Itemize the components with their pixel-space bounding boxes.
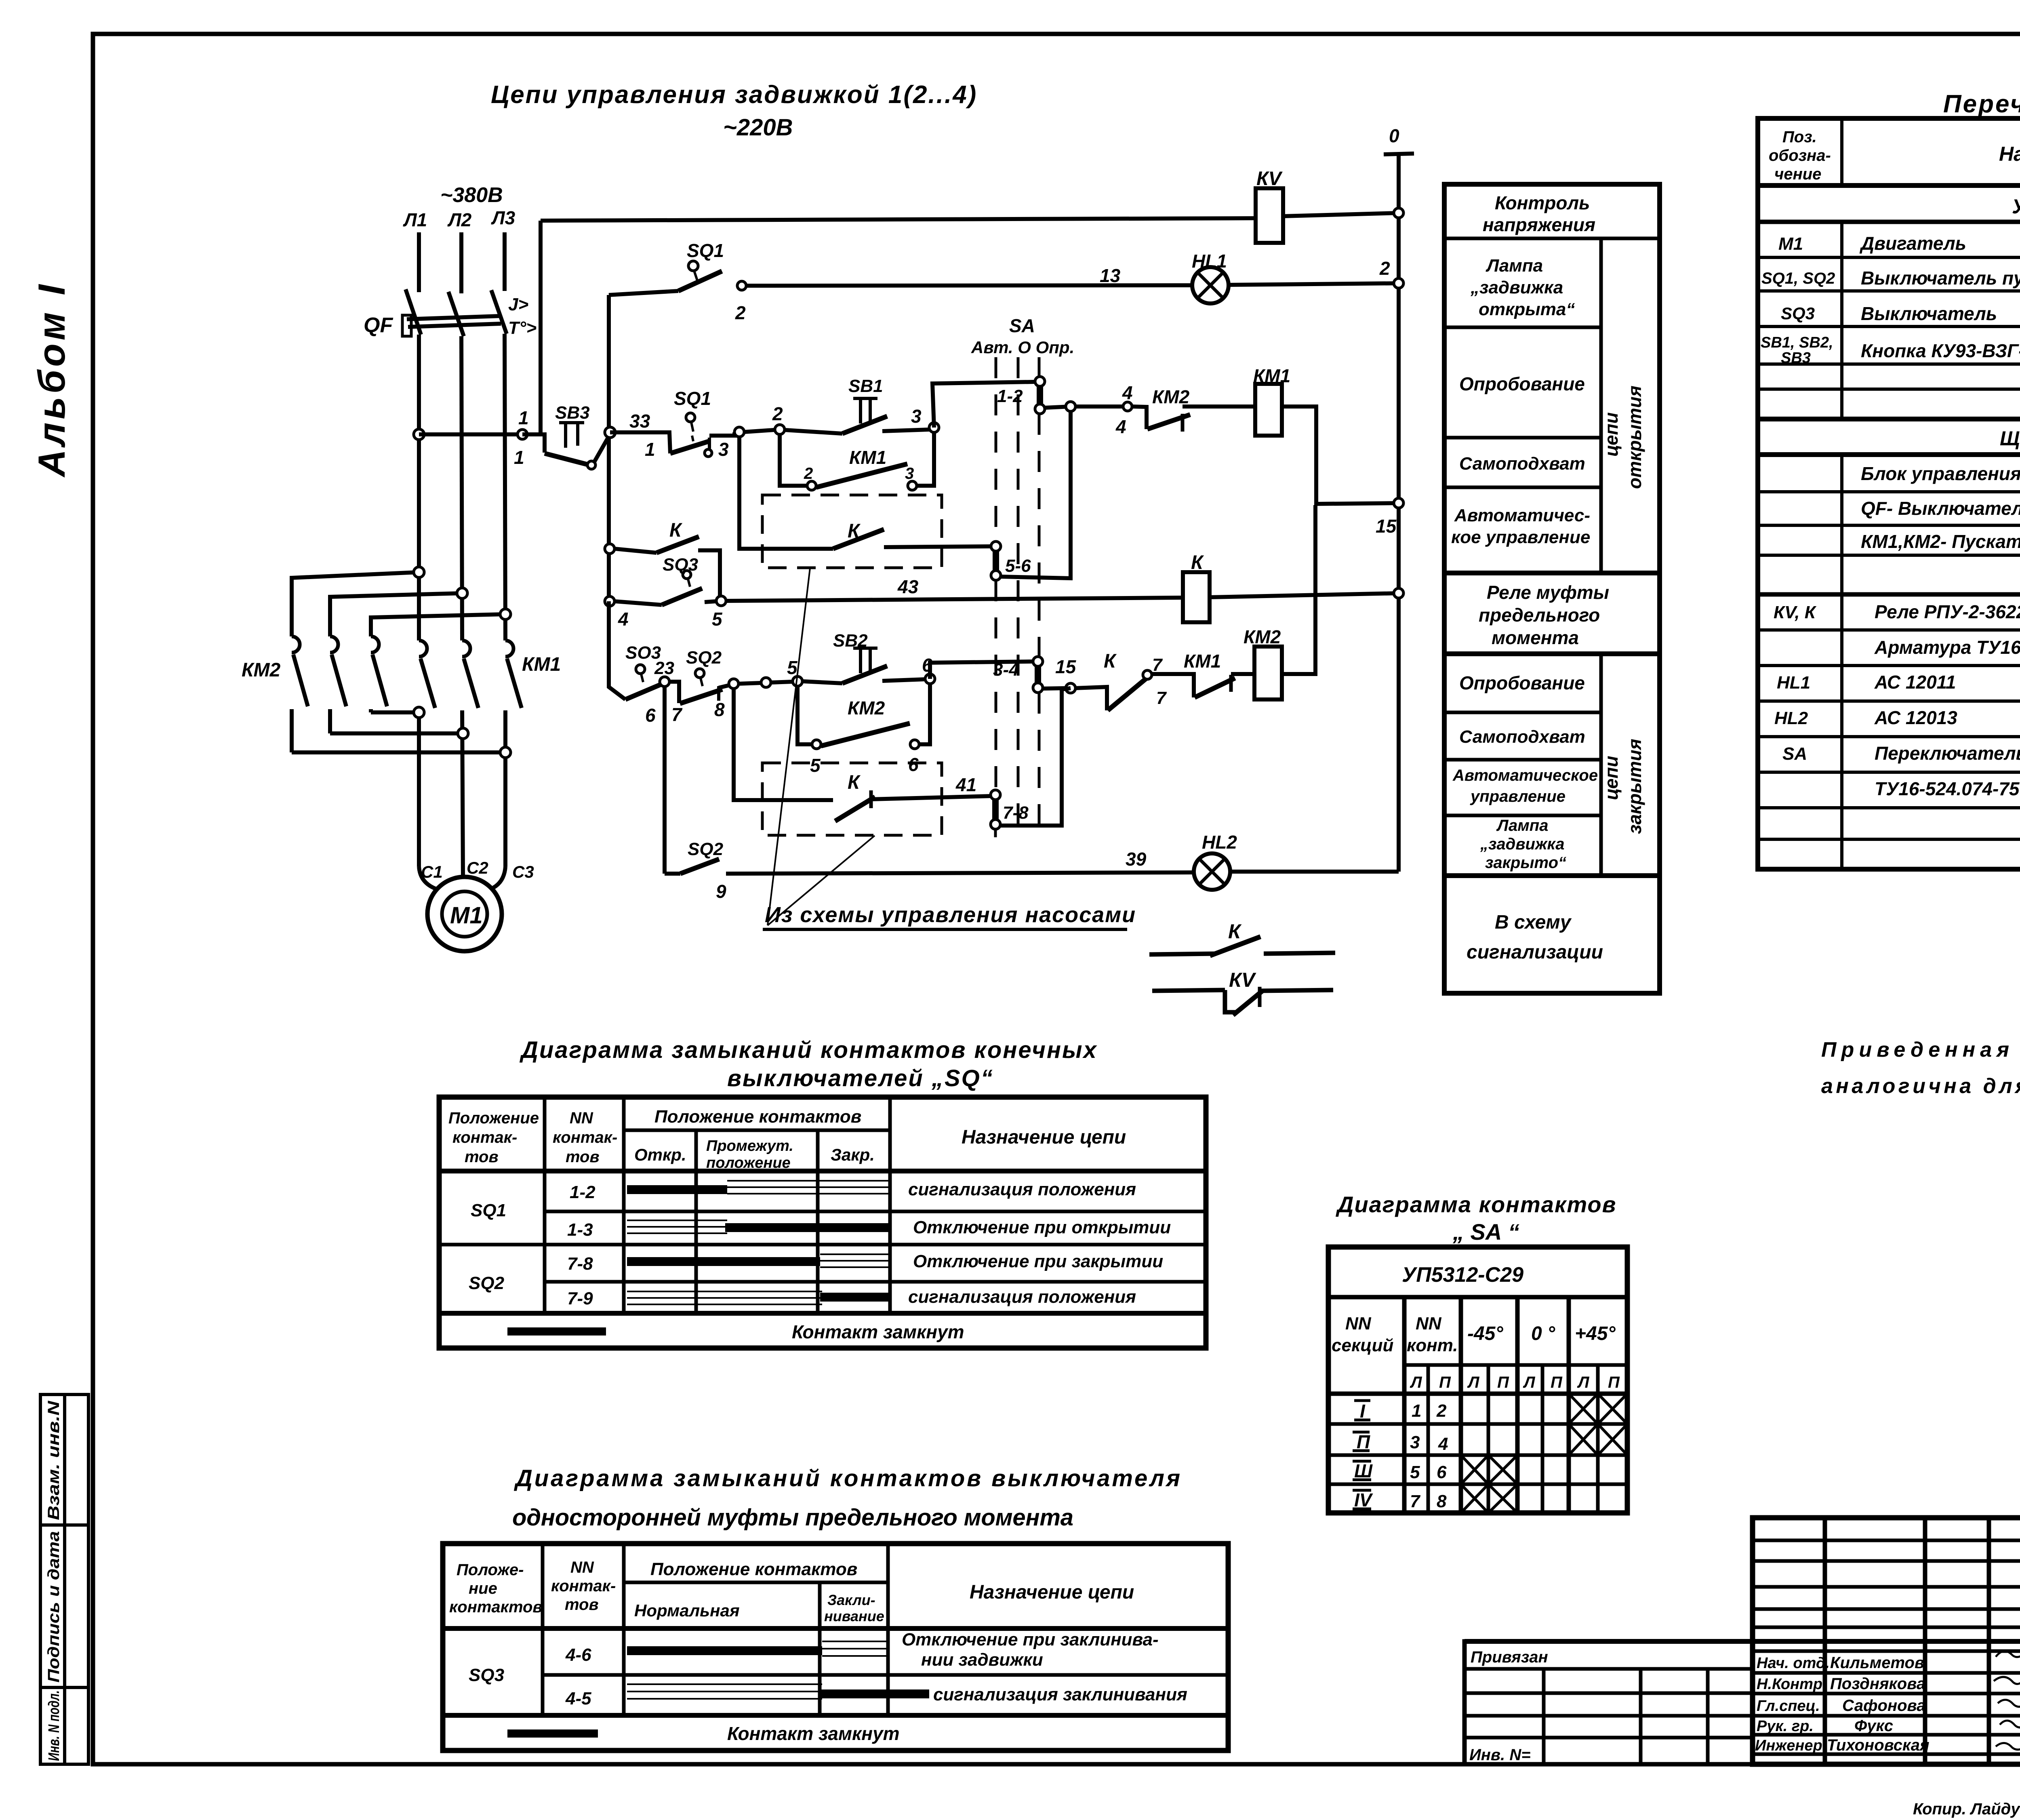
svg-text:15: 15 [1055, 656, 1077, 677]
svg-text:П: П [1551, 1373, 1563, 1391]
motor lead C3 curve [491, 867, 505, 889]
svg-text:Самоподхват: Самоподхват [1459, 454, 1585, 474]
svg-text:3: 3 [905, 465, 914, 482]
dashed box (auto control open) [762, 495, 942, 568]
wire SA5-6 back to open line [1001, 411, 1071, 578]
svg-text:Диаграмма контактов: Диаграмма контактов [1336, 1192, 1616, 1217]
svg-text:7-9: 7-9 [567, 1289, 593, 1308]
svg-text:Подпись и дата: Подпись и дата [45, 1531, 63, 1683]
svg-text:SВ3: SВ3 [555, 403, 590, 423]
svg-text:Положе-: Положе- [457, 1561, 524, 1579]
svg-text:М1: М1 [1778, 234, 1803, 254]
wire KM2 pole3 bottom to motor lead C1 [371, 710, 419, 714]
svg-text:4: 4 [1122, 382, 1133, 403]
svg-text:АС 12011: АС 12011 [1874, 672, 1956, 693]
svg-text:Ш: Ш [1354, 1460, 1373, 1481]
wire node6 up to SA 3-4 [930, 661, 1033, 679]
svg-text:NN: NN [1416, 1314, 1442, 1333]
vertical label Цепи закрытия [1601, 739, 1645, 834]
svg-text:Отключение при открытии: Отключение при открытии [913, 1218, 1171, 1237]
signatures [1994, 1648, 2020, 1750]
relay contact KV (to signalling) [1152, 969, 1333, 1015]
svg-text:I: I [1360, 1401, 1366, 1422]
wire KM2 pole2 bottom to motor lead C2 [330, 731, 463, 735]
svg-text:7: 7 [1156, 688, 1167, 708]
signature rows [1755, 1654, 1930, 1754]
svg-text:Промежут.: Промежут. [706, 1137, 793, 1154]
svg-text:КМ2: КМ2 [1152, 386, 1190, 407]
column lines [1402, 1297, 1407, 1513]
svg-text:8: 8 [714, 699, 725, 720]
node 2 [775, 425, 785, 434]
svg-text:2: 2 [772, 403, 783, 424]
svg-text:-45°: -45° [1467, 1323, 1503, 1344]
wire K branch (auto close) [734, 689, 833, 800]
header bottom [439, 1169, 1206, 1173]
svg-text:SВ1, SВ2,: SВ1, SВ2, [1761, 334, 1833, 351]
svg-text:2: 2 [735, 302, 746, 323]
svg-text:Арматура ТУ16-535.930-76: Арматура ТУ16-535.930-76 [1874, 637, 2020, 658]
svg-text:Л3: Л3 [491, 207, 516, 228]
wire to node 2 [744, 430, 780, 432]
svg-text:конт.: конт. [1407, 1336, 1458, 1355]
wire SA3-4 to node 15 [1043, 688, 1066, 689]
svg-text:КV, К: КV, К [1774, 602, 1817, 622]
node on L1 wire1 [414, 567, 424, 577]
svg-text:Отключение при заклинива-: Отключение при заклинива- [902, 1630, 1159, 1649]
row 7-8 [567, 1251, 1163, 1274]
svg-text:0 °: 0 ° [1531, 1323, 1555, 1344]
svg-text:Л: Л [1523, 1373, 1536, 1391]
row lines [1328, 1422, 1627, 1426]
node 23 [660, 677, 669, 687]
motor M1 [427, 877, 502, 951]
row KV,K [1774, 601, 2020, 622]
svg-text:2: 2 [1436, 1401, 1447, 1421]
svg-text:сигнализация положения: сигнализация положения [908, 1287, 1136, 1307]
row M1 [1778, 233, 2020, 254]
svg-text:Диаграмма замыканий контакто: Диаграмма замыканий контактов выключател… [513, 1465, 1181, 1491]
limit switch SQ1 (open line) [610, 388, 734, 460]
node on L3 wire3 [500, 609, 511, 619]
row 1-3 [567, 1218, 1171, 1240]
svg-text:SА: SА [1009, 315, 1035, 336]
auxiliary contact KM1 (self-hold) [780, 432, 934, 490]
svg-text:Опробование: Опробование [1459, 672, 1585, 693]
svg-text:Н.Контр.: Н.Контр. [1757, 1676, 1827, 1693]
header bottom [443, 1626, 1228, 1631]
push button SB3 [522, 403, 611, 469]
wire close riser down to SQ2 low [663, 687, 667, 874]
svg-text:6: 6 [645, 705, 656, 726]
svg-text:П: П [1608, 1373, 1620, 1391]
svg-text:J>: J> [508, 295, 528, 314]
row TU [1875, 778, 2020, 801]
limit switch SQ1 (lamp line) [678, 240, 746, 323]
wire phase L3 upper [503, 232, 507, 291]
svg-text:Копир. Лайдукина: Копир. Лайдукина [1913, 1800, 2020, 1818]
svg-text:Альбом I: Альбом I [30, 281, 73, 478]
svg-text:SQ1, SQ2: SQ1, SQ2 [1761, 270, 1835, 287]
svg-text:Кнопка КУ93-ВЗГ-У2 ТУ16-526: Кнопка КУ93-ВЗГ-У2 ТУ16-526.201-75 [1861, 340, 2020, 361]
svg-text:У механизма: У механизма [2012, 195, 2020, 218]
svg-text:К: К [1104, 651, 1117, 672]
svg-text:Гл.спец.: Гл.спец. [1757, 1698, 1820, 1715]
SQ table frame [439, 1097, 1206, 1348]
svg-text:5: 5 [712, 609, 723, 630]
svg-text:КМ2: КМ2 [848, 697, 885, 718]
svg-text:~380B: ~380B [440, 183, 503, 207]
приязан table [1464, 1641, 1753, 1764]
svg-text:контак-: контак- [452, 1129, 517, 1146]
svg-text:Фукс: Фукс [1854, 1717, 1893, 1735]
left grid verticals [1823, 1518, 1827, 1764]
row II [1353, 1424, 1627, 1455]
svg-text:Л: Л [1410, 1373, 1422, 1391]
svg-text:С1: С1 [421, 862, 443, 881]
svg-text:SQ2: SQ2 [686, 648, 722, 668]
svg-text:SВ3: SВ3 [1781, 350, 1811, 367]
svg-text:Л: Л [1577, 1373, 1590, 1391]
node KV-bus [1394, 208, 1403, 218]
wire to terminal 4 [1075, 404, 1123, 409]
row 7-9 [567, 1287, 1136, 1308]
switch SA contact 1-2 [997, 377, 1045, 414]
svg-text:ние: ние [469, 1580, 497, 1597]
svg-text:7-8: 7-8 [1003, 803, 1029, 823]
svg-text:Контроль: Контроль [1495, 192, 1590, 213]
svg-text:„задвижка: „задвижка [1480, 835, 1564, 853]
svg-text:Авт. О Опр.: Авт. О Опр. [971, 338, 1074, 357]
svg-text:6: 6 [1437, 1462, 1447, 1482]
Л/П sub row line [1404, 1363, 1627, 1367]
wire riser to close line [609, 601, 625, 699]
ELEMTABLE [1758, 90, 2020, 869]
node 43-bus [1394, 588, 1403, 598]
svg-text:Лампа: Лампа [1486, 256, 1543, 276]
relay coil K [1183, 552, 1210, 622]
wire top rail to KV [541, 218, 1256, 221]
left margin stamp boxes [40, 1394, 88, 1764]
svg-text:Закли-: Закли- [827, 1592, 875, 1608]
svg-text:выключателей „SQ“: выключателей „SQ“ [727, 1065, 994, 1091]
svg-text:1: 1 [645, 439, 655, 460]
node HL1-bus [1394, 278, 1403, 288]
svg-text:Переключатель УП5312-С29: Переключатель УП5312-С29 рук. овальн. [1875, 743, 2020, 764]
node 5 (K/SQ3) [716, 596, 726, 606]
svg-text:Автоматическое: Автоматическое [1452, 767, 1598, 784]
svg-text:нии задвижки: нии задвижки [921, 1650, 1043, 1670]
relay coil KV [1256, 168, 1283, 243]
svg-text:NN: NN [570, 1559, 594, 1576]
svg-text:SQ1: SQ1 [674, 388, 711, 409]
leader line to dashed box 2 [768, 836, 875, 925]
dashed box (auto control close) [762, 763, 942, 835]
svg-text:Привязан: Привязан [1471, 1648, 1548, 1666]
vertical label Цепи открытия [1601, 385, 1645, 489]
svg-text:напряжения: напряжения [1483, 214, 1595, 235]
sub header line [624, 1581, 888, 1584]
svg-text:Кильметов: Кильметов [1830, 1654, 1924, 1672]
svg-text:SQ2: SQ2 [469, 1273, 505, 1293]
svg-text:Назначение цепи: Назначение цепи [970, 1582, 1134, 1603]
svg-text:SQ2: SQ2 [688, 839, 724, 859]
wire phase L1 upper [417, 232, 421, 292]
svg-text:Сафонова: Сафонова [1842, 1697, 1925, 1715]
torque switch SQ3 [614, 555, 716, 605]
row lines [1444, 237, 1660, 240]
svg-text:3: 3 [718, 439, 729, 460]
svg-text:Перечень элементов: Перечень элементов [1943, 90, 2020, 118]
row IV [1353, 1484, 1517, 1513]
wire close line [739, 683, 761, 684]
wire KM1 coil to bus (node 15) [1282, 407, 1399, 504]
sub column lines (Л/П) [1427, 1365, 1430, 1513]
NC contact KM1 (close interlock) [1152, 651, 1254, 697]
auxiliary contact KM2 (self-hold close) [797, 684, 930, 776]
svg-text:1-3: 1-3 [567, 1220, 593, 1240]
svg-text:тов: тов [566, 1148, 600, 1166]
svg-text:предельного: предельного [1479, 605, 1600, 626]
svg-text:Опробование: Опробование [1459, 373, 1585, 394]
svg-text:3: 3 [1410, 1432, 1420, 1452]
svg-text:Положение контактов: Положение контактов [650, 1559, 857, 1579]
svg-text:Позднякова: Позднякова [1830, 1675, 1925, 1693]
svg-text:Из схемы управления насосами: Из схемы управления насосами [765, 903, 1136, 927]
row lines [1758, 220, 2020, 224]
svg-text:КМ1: КМ1 [849, 447, 886, 468]
wire bus 0 vertical [1397, 154, 1401, 872]
wire SA1-2 to node 4 junction [1045, 407, 1071, 408]
svg-text:SQ1: SQ1 [471, 1201, 506, 1220]
svg-text:цепи: цепи [1601, 412, 1622, 457]
header separator [1758, 183, 2020, 188]
svg-text:„задвижка: „задвижка [1470, 278, 1563, 297]
svg-text:С3: С3 [512, 862, 534, 881]
node (close line K branch) [729, 679, 739, 689]
node on K/SQ3 riser [605, 544, 614, 554]
svg-text:Диаграмма замыканий конт: Диаграмма замыканий контактов конечных [519, 1037, 1098, 1063]
limit switch SQ2 (close line) [645, 648, 729, 726]
header NN конт [1407, 1314, 1458, 1355]
contactor KM1 pole 3 [505, 640, 522, 867]
svg-text:Блок управления Б5437-307: Блок управления Б5437-3074 Г УХЛ4 [1861, 463, 2020, 484]
svg-text:УП5312-С29: УП5312-С29 [1402, 1263, 1523, 1287]
svg-text:КМ2: КМ2 [242, 659, 280, 681]
svg-text:23: 23 [654, 658, 674, 678]
row I [1354, 1394, 1627, 1424]
svg-text:В схему: В схему [1495, 912, 1572, 933]
svg-text:NN: NN [570, 1109, 593, 1127]
svg-text:открытия: открытия [1624, 385, 1645, 489]
svg-text:Самоподхват: Самоподхват [1459, 727, 1585, 747]
node 0 terminal [1384, 125, 1414, 154]
POWER [242, 183, 561, 951]
node 5 (close line) [793, 676, 802, 686]
svg-text:Нормальная: Нормальная [634, 1601, 740, 1620]
svg-text:5: 5 [810, 755, 821, 776]
wire rail1 left [609, 291, 678, 295]
svg-text:13: 13 [1100, 265, 1121, 286]
row SQ1,SQ2 [1761, 268, 2020, 289]
svg-text:односторонней муфты пред: односторонней муфты предельного момента [512, 1504, 1075, 1531]
header col2 [551, 1559, 616, 1614]
svg-text:П: П [1439, 1373, 1451, 1391]
SQTABLE [439, 1037, 1206, 1348]
contactor KM1 pole 2 [462, 640, 478, 877]
TITLEBLOCK [1464, 1518, 2020, 1820]
svg-text:Инв. N подл.: Инв. N подл. [46, 1690, 63, 1761]
terminal 4 [1123, 402, 1132, 411]
svg-text:контак-: контак- [553, 1129, 617, 1146]
svg-text:39: 39 [1126, 849, 1147, 870]
svg-text:NN: NN [1345, 1314, 1372, 1333]
SA table frame [1328, 1247, 1627, 1513]
column lines [543, 1097, 547, 1313]
svg-text:открыта“: открыта“ [1479, 299, 1575, 319]
header col2 [553, 1109, 617, 1166]
row QF [1861, 498, 2020, 519]
wire open line from L1 [419, 432, 522, 436]
row SA [1782, 743, 2020, 764]
svg-text:К: К [669, 520, 683, 541]
switch SA contact 5-6 [991, 541, 1031, 580]
NOTES [1821, 1038, 2020, 1098]
header NN секций [1332, 1314, 1394, 1355]
NC contact KM2 (interlock) [1132, 386, 1255, 432]
wire phase L1 lower [417, 335, 421, 640]
svg-text:К: К [848, 772, 861, 793]
column lines [541, 1544, 545, 1715]
svg-text:SВ1: SВ1 [848, 376, 883, 396]
wire HL1 to bus [1229, 283, 1399, 285]
svg-text:Инв. N=: Инв. N= [1469, 1746, 1531, 1764]
wire KM2 coil up to node 15 line [1282, 505, 1315, 674]
node on C3 lead [500, 747, 511, 758]
svg-text:Выключатель путевой: Выключатель путевой [1861, 268, 2020, 289]
svg-text:1-2: 1-2 [570, 1182, 595, 1202]
LABELCOL [1444, 184, 1660, 993]
wire node3 up to SA 1-2 [932, 382, 1034, 428]
svg-text:~220В: ~220В [723, 114, 793, 141]
relay contact K (auto open, in dashed box) [833, 520, 996, 549]
contactor coil KM1 [1253, 365, 1290, 436]
svg-text:КV: КV [1229, 969, 1256, 991]
CONTROL [419, 81, 1414, 929]
svg-text:момента: момента [1492, 627, 1579, 648]
row HL1 [1777, 672, 2020, 693]
svg-text:HL1: HL1 [1777, 673, 1810, 693]
svg-text:КМ2: КМ2 [1244, 626, 1281, 647]
svg-text:5: 5 [787, 657, 798, 678]
svg-text:15: 15 [1376, 516, 1397, 537]
terminal 7 [1143, 670, 1152, 679]
svg-text:Наименование: Наименование [1999, 143, 2020, 165]
svg-text:Назначение цепи: Назначение цепи [962, 1127, 1126, 1148]
svg-text:QF- Выключатель АЕ 2026-10НУ: QF- Выключатель АЕ 2026-10НУЗ Iр-10А [1861, 498, 2020, 519]
push button SB2 [802, 631, 925, 683]
svg-text:Отключение при закрытии: Отключение при закрытии [913, 1251, 1163, 1271]
svg-text:1: 1 [518, 407, 529, 428]
svg-text:Взам. инв.N: Взам. инв.N [45, 1401, 63, 1520]
header col1 [449, 1561, 543, 1616]
row 1-2 [570, 1180, 1136, 1202]
wire phase L2 upper [459, 232, 463, 293]
svg-text:обозна-: обозна- [1769, 147, 1831, 164]
svg-text:43: 43 [897, 576, 919, 597]
row 4-5 [565, 1684, 1187, 1708]
Л П labels [1410, 1373, 1620, 1391]
svg-text:SQ3: SQ3 [469, 1665, 504, 1685]
svg-text:сигнализации: сигнализации [1467, 942, 1603, 963]
svg-text:Двигатель: Двигатель [1859, 233, 1966, 254]
svg-text:HL2: HL2 [1774, 708, 1808, 728]
limit switch SQ2 (signal lamp) [665, 839, 726, 902]
node on C1 lead [414, 707, 424, 718]
wire phase L3 lower [505, 334, 505, 640]
row III [1353, 1455, 1517, 1484]
switch SA contact 3-4 [993, 657, 1043, 693]
wire SA7-8 back to close line [1000, 688, 1071, 826]
svg-text:SА: SА [1782, 744, 1807, 764]
node (junction SQ1/K branch) [734, 427, 744, 437]
switch SA dashed column right [1038, 357, 1041, 377]
SQ3 table frame [443, 1544, 1228, 1750]
svg-text:Выключатель: Выключатель [1861, 303, 1997, 324]
header УП5312-С29 [1328, 1263, 1627, 1297]
node on L2 wire2 [457, 588, 467, 598]
svg-text:К: К [1228, 920, 1242, 943]
svg-text:контак-: контак- [551, 1577, 616, 1595]
row HL2 [1774, 707, 2020, 728]
svg-text:7: 7 [1410, 1491, 1421, 1511]
svg-text:КМ1,КМ2- Пускатель ПМЛ150 10: КМ1,КМ2- Пускатель ПМЛ150 104А ПКЛ2004 [1861, 531, 2020, 552]
relay contact K (to signalling) [1149, 920, 1335, 956]
MARGIN [30, 281, 88, 1764]
svg-text:М1: М1 [450, 902, 483, 929]
wire to node 5 close [771, 682, 793, 682]
svg-text:Контакт замкнут: Контакт замкнут [727, 1723, 900, 1744]
push button SB1 [785, 376, 929, 434]
svg-text:П: П [1357, 1431, 1370, 1452]
svg-text:Л: Л [1467, 1373, 1480, 1391]
svg-text:2: 2 [804, 465, 813, 482]
torque switch SO3 (signal) [625, 643, 663, 699]
svg-text:сигнализация положения: сигнализация положения [908, 1180, 1136, 1199]
node tap on L1 for control circuit [414, 429, 424, 440]
sub column dividers [1599, 238, 1603, 573]
svg-text:3: 3 [911, 406, 922, 427]
svg-text:Нач. отд.: Нач. отд. [1757, 1655, 1830, 1672]
circuit breaker QF [364, 289, 537, 338]
row SB1,SB2,SB3 [1761, 334, 2020, 367]
wire KM2 pole2 top to L2 [330, 593, 462, 636]
wire riser top rail to line 1 [539, 221, 543, 434]
svg-text:Откр.: Откр. [634, 1145, 686, 1164]
relay contact K (torque relay bypass) [614, 520, 720, 601]
row lines [545, 1210, 1206, 1213]
switch SA dashed column left [995, 357, 997, 541]
node (close line mid) [761, 678, 771, 687]
svg-text:закрытия: закрытия [1624, 739, 1645, 834]
svg-text:4: 4 [618, 609, 629, 630]
svg-text:1: 1 [1412, 1401, 1421, 1421]
svg-text:QF: QF [364, 314, 393, 337]
sub header line [624, 1129, 890, 1132]
left grid rows [1753, 1539, 2020, 1542]
lamp HL1 [1192, 251, 1229, 303]
node 15 on bus [1394, 498, 1403, 508]
